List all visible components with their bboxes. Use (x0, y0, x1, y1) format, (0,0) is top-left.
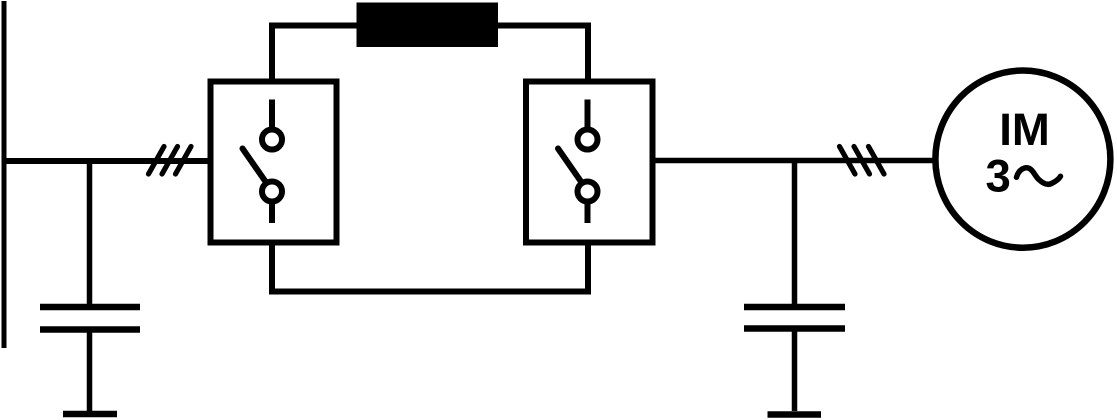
bus bar (2, 1, 7, 348)
wire feeder from bus to switch Q1 (2, 158, 208, 164)
wire bottom-left drop (269, 246, 275, 295)
capacitor C2 (744, 161, 845, 412)
resistor R1 (starting resistor, filled) (357, 3, 499, 48)
svg-text:IM: IM (999, 104, 1050, 155)
capacitor C1 (40, 161, 140, 412)
svg-text:3: 3 (986, 151, 1011, 202)
wire top-right riser (585, 23, 591, 79)
switch Q1 box (211, 82, 337, 243)
wire top-left horizontal (269, 23, 358, 29)
wire bottom-right drop (585, 246, 591, 295)
three-phase marks left (149, 147, 192, 175)
wire output to motor (656, 158, 936, 164)
ground right (768, 411, 822, 418)
switch Q2 box (526, 82, 653, 243)
motor M1 circle (935, 71, 1110, 248)
motor M1 AC sine symbol (1017, 168, 1061, 185)
wire bypass bottom (269, 289, 591, 295)
wire top-left riser (269, 23, 275, 79)
switch Q1 contact symbol (243, 100, 283, 224)
switch Q2 contact symbol (558, 100, 598, 224)
wire top-right horizontal (497, 23, 591, 29)
ground left (63, 411, 117, 418)
three-phase marks right (840, 147, 885, 175)
